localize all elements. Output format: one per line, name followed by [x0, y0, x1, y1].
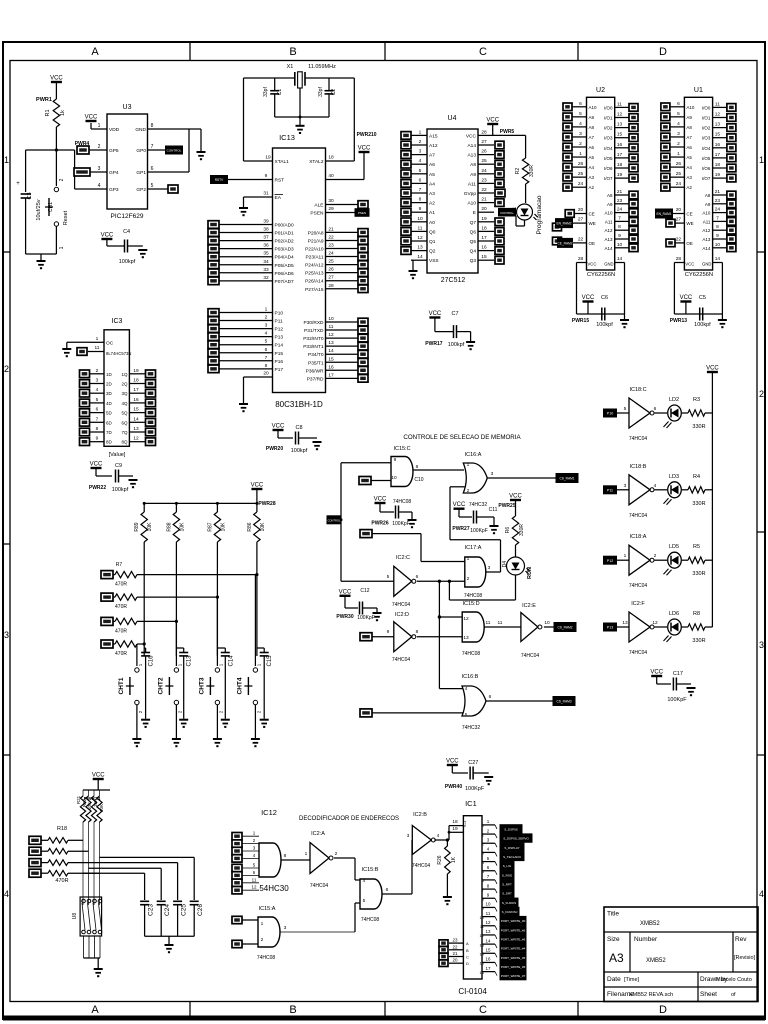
connector U1-rA14 [727, 244, 736, 252]
U2 pin 11 I/O0 [604, 101, 629, 110]
svg-text:P02/AD2: P02/AD2 [275, 239, 295, 245]
svg-text:XMB52: XMB52 [640, 921, 660, 927]
svg-text:5: 5 [579, 111, 582, 117]
top strip dividers [190, 42, 578, 61]
wire control vertical [340, 463, 343, 582]
svg-text:A9: A9 [607, 202, 613, 207]
svg-text:1: 1 [96, 336, 99, 342]
svg-text:C15: C15 [267, 655, 273, 667]
label decodificador [299, 816, 399, 822]
svg-text:C3: C3 [27, 192, 33, 199]
svg-text:B: B [466, 948, 469, 953]
IC13 pin 24 P23/A11 [305, 251, 358, 261]
IC3 pin 16 4Q [121, 397, 145, 406]
svg-text:A9: A9 [589, 115, 595, 120]
svg-text:IC18:C: IC18:C [629, 387, 646, 393]
capacitor C3 10uf/25v [16, 150, 42, 254]
connector S_LIG [495, 861, 514, 869]
IC3 pin 14 6Q [121, 416, 145, 425]
connector U1-I/O0 [727, 104, 736, 112]
IC1 pin 9 [482, 892, 495, 901]
svg-text:3: 3 [579, 131, 582, 137]
U1 pin 2 A6 [670, 141, 692, 150]
IC1 pin 5 [482, 856, 495, 865]
left strip dividers [3, 252, 10, 755]
svg-text:13: 13 [485, 929, 491, 934]
ground C8 [313, 442, 322, 449]
svg-text:P32/INT0: P32/INT0 [303, 336, 324, 342]
svg-text:I/O7: I/O7 [604, 176, 613, 181]
wire pullup verticals [144, 542, 257, 656]
connector U1-rA12 [727, 226, 736, 234]
U1 pin 24 A10 [702, 207, 726, 216]
title block Sheet field [700, 991, 736, 998]
IC13 pin 14 P34/T0 [308, 348, 358, 358]
svg-text:A1: A1 [429, 210, 435, 216]
svg-text:28: 28 [481, 129, 487, 135]
svg-text:26: 26 [676, 161, 682, 167]
IC13 pin 37 P02/AD2 [219, 235, 294, 245]
label R18 [55, 826, 68, 884]
connector U1-I/O2 [727, 124, 736, 132]
ground IC13 pin20 [239, 377, 248, 411]
svg-text:EN_RAM1: EN_RAM1 [656, 212, 671, 216]
U2 pin 21 A8 [607, 189, 629, 198]
svg-text:9: 9 [394, 457, 397, 463]
connector U2-rA11 [629, 218, 638, 226]
svg-text:74HC32: 74HC32 [462, 725, 481, 731]
IC3 pin 2 1D [90, 368, 113, 377]
connector AD3 [208, 245, 219, 253]
U2 pin 2 A6 [573, 141, 595, 150]
IC13 pin 6 P15 [219, 347, 283, 357]
connector P36 [358, 367, 368, 375]
svg-text:22: 22 [578, 236, 584, 242]
column label C bottom [479, 1004, 487, 1016]
right strip dividers [757, 252, 765, 755]
U1 pin 8 A12 [702, 224, 726, 233]
svg-text:IC18:A: IC18:A [630, 534, 647, 540]
svg-text:CS_RAM3: CS_RAM3 [556, 700, 571, 704]
svg-text:4: 4 [363, 878, 366, 884]
connector IC3-3Q [146, 389, 156, 397]
svg-text:A11: A11 [468, 181, 477, 187]
svg-text:4: 4 [419, 158, 422, 164]
capacitor C23 [140, 901, 155, 936]
connector IC3-7Q [146, 428, 156, 436]
connector IC3-4Q [146, 399, 156, 407]
svg-text:1K: 1K [451, 856, 457, 863]
connector U2-rA13 [629, 235, 638, 243]
resistor R86 10K [247, 503, 266, 542]
connector S_RPT [495, 880, 514, 888]
power symbol VCC PWR24 [92, 773, 105, 791]
svg-text:PSEN: PSEN [310, 211, 324, 217]
svg-text:P00/AD0: P00/AD0 [275, 223, 295, 229]
U1 pin 16 I/O4 [702, 142, 727, 151]
U4 pin 1 A15 [411, 129, 438, 139]
wire IC15B out [382, 840, 412, 894]
svg-text:[Time]: [Time] [624, 977, 640, 983]
IC13 pin 32 P07/AD7 [219, 275, 294, 285]
connector U1-rA9 [727, 200, 736, 208]
resistor R8 330R [682, 611, 712, 644]
svg-text:A3: A3 [609, 951, 624, 965]
svg-text:12: 12 [251, 885, 257, 890]
connector IC15C input 10 [359, 477, 371, 485]
gate IC2:E 74HC04 [521, 603, 550, 659]
svg-text:CY62256N: CY62256N [685, 272, 713, 278]
connector P17 [208, 365, 219, 373]
wire IC15D out [484, 620, 521, 627]
svg-text:Q7: Q7 [470, 220, 477, 226]
connector PORT_WRITE_#6 [495, 962, 526, 970]
svg-text:EN_RAM2: EN_RAM2 [556, 222, 571, 226]
connector U1-A2 [661, 183, 670, 191]
IC1 pins 23-20 ABCD [449, 938, 469, 967]
svg-text:7Q: 7Q [121, 430, 128, 435]
connector oe conn [666, 239, 675, 247]
svg-text:Number: Number [634, 936, 658, 943]
svg-text:Q4: Q4 [470, 249, 477, 255]
IC13 pin 7 P16 [219, 355, 283, 365]
column label B top [289, 46, 296, 58]
svg-text:74HC04: 74HC04 [412, 863, 431, 869]
svg-text:3D: 3D [106, 391, 113, 396]
svg-text:VCC: VCC [588, 262, 597, 267]
connector PORT_WRITE_#2 [495, 926, 526, 934]
connector U2-A10 [563, 103, 572, 111]
IC13 pin 10 P30/RXD [304, 316, 359, 326]
svg-text:5: 5 [151, 183, 154, 189]
svg-text:A: A [466, 941, 469, 946]
connector AD0 [208, 221, 219, 229]
svg-text:10K: 10K [260, 522, 266, 532]
svg-text:S_DSP0S: S_DSP0S [504, 828, 518, 832]
U4 pin 2 A12 [411, 139, 438, 149]
svg-text:12: 12 [480, 933, 485, 938]
gate IC2:A 74HC04 [305, 831, 338, 889]
svg-text:80C31BH-1D: 80C31BH-1D [275, 400, 323, 409]
svg-text:3: 3 [624, 483, 627, 489]
svg-text:I/O5: I/O5 [604, 156, 613, 161]
wire IC16A out [487, 477, 558, 479]
svg-text:17: 17 [715, 152, 721, 158]
connector AD1 [208, 229, 219, 237]
svg-text:7: 7 [419, 187, 422, 193]
U1 pin 23 A9 [705, 198, 727, 207]
IC12 inputs group2 [232, 863, 259, 894]
switch CHT3 [198, 656, 223, 738]
U4 pin 19 Q7 [470, 216, 494, 226]
IC3 pin 11 C [88, 345, 131, 356]
svg-text:3: 3 [98, 166, 101, 172]
led LD3 [655, 474, 682, 505]
connector P13 [208, 333, 219, 341]
svg-text:5: 5 [624, 406, 627, 412]
connector U2-rA8 [629, 191, 638, 199]
gate IC15:B 74HC08 [360, 867, 389, 923]
U1 pin 21 A8 [705, 189, 727, 198]
connector A9 right [553, 237, 562, 245]
IC13 pin 18 XTAL2 [309, 155, 354, 166]
svg-text:10: 10 [617, 242, 623, 248]
svg-text:CONTROL: CONTROL [167, 149, 182, 153]
svg-text:8: 8 [618, 224, 621, 230]
wire IC15A in1 [242, 920, 258, 925]
svg-text:IC2:A: IC2:A [311, 831, 325, 837]
svg-text:PSEN: PSEN [358, 211, 366, 215]
U1 pin 15 I/O3 [702, 132, 727, 141]
IC13 pin 20 GND [244, 371, 273, 378]
connector P32 [358, 334, 368, 342]
connector U1-A3 [661, 173, 670, 181]
svg-text:18: 18 [715, 162, 721, 168]
svg-text:A11: A11 [703, 219, 711, 224]
wire IC15C in9 [341, 462, 391, 464]
row label 1 right [759, 155, 764, 165]
svg-text:E: E [473, 210, 476, 216]
svg-text:GP1: GP1 [136, 170, 146, 176]
svg-text:C13: C13 [187, 655, 193, 667]
svg-text:5: 5 [465, 712, 468, 718]
svg-text:22: 22 [481, 187, 487, 193]
svg-text:PWR17: PWR17 [425, 341, 442, 347]
svg-text:28: 28 [578, 256, 584, 262]
resistor R1 1k [36, 82, 66, 150]
capacitor C15 [257, 648, 273, 719]
svg-text:29: 29 [328, 206, 334, 212]
svg-text:A10: A10 [686, 105, 695, 110]
wire r18 to caps [83, 857, 194, 900]
connector CONTROL left mid [327, 516, 341, 524]
svg-text:CE: CE [686, 212, 692, 217]
U4 pin 20 E [473, 206, 494, 216]
connector P37 [358, 375, 368, 383]
svg-text:P17: P17 [275, 367, 284, 373]
connector AD5 [208, 261, 219, 269]
svg-text:15: 15 [715, 132, 721, 138]
svg-text:I/O3: I/O3 [702, 136, 711, 141]
U4 pin 28 VCC [466, 129, 494, 139]
switch CHT1 [118, 656, 143, 738]
svg-text:+: + [16, 181, 20, 187]
svg-text:A: A [91, 46, 99, 58]
svg-text:13: 13 [417, 245, 423, 251]
svg-text:12: 12 [417, 235, 423, 241]
ground U3 GND [197, 129, 206, 159]
svg-text:CS_RAM1: CS_RAM1 [559, 477, 574, 481]
svg-text:A12: A12 [604, 228, 613, 233]
svg-text:I/O2: I/O2 [604, 126, 613, 131]
ground C12 [373, 608, 382, 620]
wire IC15B in5 [281, 903, 361, 932]
ground caps23 [165, 945, 174, 952]
svg-text:IC1: IC1 [462, 820, 467, 827]
svg-text:14: 14 [328, 348, 334, 354]
connector P3 mid [360, 530, 372, 538]
led LD5 [655, 544, 682, 575]
svg-text:PWR40: PWR40 [445, 784, 462, 790]
svg-text:470R: 470R [115, 604, 127, 610]
row label 3 right [759, 640, 764, 650]
svg-text:12: 12 [652, 620, 658, 626]
svg-text:I/O0: I/O0 [604, 105, 613, 110]
connector on U3 pin3 [74, 168, 90, 176]
IC1 pin 12 [480, 920, 495, 929]
svg-text:21: 21 [617, 189, 623, 195]
svg-text:GP4: GP4 [109, 170, 119, 176]
svg-text:A7: A7 [589, 135, 595, 140]
U2 pin 25 A3 [573, 171, 595, 180]
IC1 pin 13 [480, 929, 495, 938]
svg-text:P15: P15 [275, 351, 284, 357]
svg-text:XMB52 REVA.sch: XMB52 REVA.sch [629, 992, 673, 998]
connector U4-A4 [401, 180, 411, 188]
svg-text:GP5: GP5 [109, 148, 119, 154]
connector U4-A15 [401, 132, 411, 140]
svg-text:PORT_WRITE_#5: PORT_WRITE_#5 [501, 956, 526, 960]
svg-text:A9: A9 [470, 172, 476, 178]
connector U2-I/O3 [629, 134, 638, 142]
connector S_DSP0S [495, 825, 522, 833]
connector U4-A6 [401, 160, 411, 168]
svg-text:20: 20 [481, 206, 487, 212]
connector U4-Q6 [495, 228, 504, 236]
svg-text:CE_RAM2: CE_RAM2 [557, 242, 572, 246]
svg-text:CHT1: CHT1 [118, 677, 125, 694]
row label 2 right [759, 389, 764, 399]
svg-text:S_FUROSJ: S_FUROSJ [502, 910, 518, 914]
svg-text:3: 3 [419, 149, 422, 155]
svg-text:74HC04: 74HC04 [629, 436, 648, 442]
connector U1-rA8 [727, 191, 736, 199]
svg-text:VCC: VCC [358, 146, 371, 152]
svg-text:1: 1 [419, 129, 422, 135]
title block Number field [634, 936, 666, 964]
svg-text:5: 5 [265, 339, 268, 345]
svg-text:23: 23 [481, 177, 487, 183]
svg-text:1: 1 [265, 307, 268, 313]
IC13 pin 8 P17 [219, 363, 283, 373]
svg-text:I/O1: I/O1 [702, 116, 711, 121]
svg-text:GVpp: GVpp [464, 191, 477, 197]
row label 4 left [4, 889, 9, 899]
U2 pin 9 A13 [604, 233, 628, 242]
svg-text:C14: C14 [228, 655, 234, 667]
column label C top [479, 46, 487, 58]
svg-text:10: 10 [715, 242, 721, 248]
wire U8 bottom join [84, 958, 101, 968]
svg-text:470R: 470R [115, 651, 127, 657]
svg-text:C16: C16 [149, 655, 155, 667]
power symbol VCC PWR5 [486, 118, 514, 136]
svg-text:1: 1 [261, 921, 264, 927]
svg-text:100KpF: 100KpF [470, 528, 488, 534]
switch CHT4 [236, 656, 261, 738]
ground CHT2 [172, 739, 181, 746]
connector P31 [358, 326, 368, 334]
gate IC18:B 74HC04 [616, 464, 657, 519]
svg-text:6: 6 [654, 406, 657, 412]
connector PORT_WRITE_#4 [495, 944, 526, 952]
svg-text:C8: C8 [295, 425, 302, 431]
ground U4 VSS [409, 260, 418, 278]
IC3 pin 1 OC [90, 336, 114, 346]
wire pullup rail [144, 502, 257, 504]
connector P12 [208, 325, 219, 333]
svg-text:11: 11 [486, 911, 491, 916]
connector P10 [604, 409, 617, 417]
svg-text:A5: A5 [686, 155, 692, 160]
IC13 pin 33 P06/AD6 [219, 267, 294, 277]
svg-text:6Q: 6Q [121, 420, 128, 425]
svg-text:R18: R18 [57, 826, 67, 832]
svg-text:XTAL1: XTAL1 [275, 159, 290, 165]
IC1 pin 19 IC2 [449, 826, 463, 832]
IC13 pin 30 ALE [314, 198, 358, 209]
IC1 pin 11 [480, 911, 495, 920]
svg-text:C11: C11 [489, 507, 498, 513]
svg-text:Programacao: Programacao [536, 195, 543, 234]
svg-text:VCC: VCC [706, 366, 719, 372]
connector U2-rA9 [629, 200, 638, 208]
connector CONTROL on U3 pin7 [166, 146, 183, 154]
U1 pin 25 A3 [670, 171, 692, 180]
svg-text:20: 20 [263, 371, 269, 377]
svg-text:S_TECLADO: S_TECLADO [503, 855, 522, 859]
U3 pin 7 GP0 [136, 144, 166, 154]
svg-text:R5: R5 [693, 544, 700, 550]
ground C5 [718, 314, 727, 327]
IC13 pin 35 P04/AD4 [219, 251, 294, 261]
resistor R5 330R [682, 544, 712, 577]
connector U4-A10 [495, 199, 504, 207]
U1 pin 13 I/O2 [702, 122, 727, 131]
svg-text:I/O3: I/O3 [604, 136, 613, 141]
svg-text:A7: A7 [429, 153, 435, 159]
svg-text:A8: A8 [686, 125, 692, 130]
svg-text:Q3: Q3 [470, 258, 477, 264]
svg-text:VCC: VCC [582, 295, 595, 301]
svg-text:I/O2: I/O2 [702, 126, 711, 131]
U1 pin 20 CE [670, 207, 692, 217]
ground C13 [179, 720, 188, 727]
wire IC2C in [341, 580, 394, 582]
svg-text:A10: A10 [604, 211, 613, 216]
svg-text:PIC12F629: PIC12F629 [111, 213, 144, 220]
svg-text:330R: 330R [529, 165, 535, 177]
U1 pin 22 OE [670, 236, 693, 246]
IC13 pin 16 P36/WR [306, 364, 358, 374]
svg-text:A13: A13 [467, 153, 476, 159]
svg-text:A5: A5 [429, 172, 435, 178]
svg-text:A8: A8 [705, 193, 711, 198]
connector P12 [604, 556, 617, 564]
U1 pin 17 I/O5 [702, 152, 727, 161]
U1 pin 18 I/O6 [702, 162, 727, 171]
svg-text:11: 11 [486, 620, 491, 626]
svg-text:R3: R3 [693, 397, 700, 403]
IC1 pin 1 [482, 819, 495, 828]
svg-text:PWR15: PWR15 [572, 318, 589, 324]
U2 pin 23 A9 [607, 198, 629, 207]
svg-text:4D: 4D [106, 401, 113, 406]
bottom strip dividers [190, 1002, 578, 1017]
svg-text:PWR22: PWR22 [89, 485, 106, 491]
svg-text:10K: 10K [93, 799, 98, 807]
svg-text:IC15:C: IC15:C [393, 446, 410, 452]
